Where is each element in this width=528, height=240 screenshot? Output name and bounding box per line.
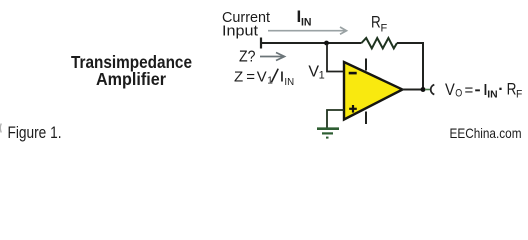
ground — [317, 129, 339, 138]
resistor RF — [362, 38, 398, 48]
wire: non-inverting input to ground — [327, 110, 344, 128]
svg-text:=: = — [465, 82, 474, 99]
output terminal — [431, 85, 435, 95]
svg-text:F: F — [381, 22, 388, 34]
op-amp U1 body — [344, 62, 403, 120]
svg-text:R: R — [507, 81, 517, 99]
op-amp positive supply pin — [365, 59, 367, 71]
junction: output node — [421, 87, 426, 92]
input terminal — [260, 38, 262, 49]
svg-text:O: O — [455, 88, 462, 100]
svg-text:1: 1 — [319, 69, 325, 81]
wire: op-amp output — [402, 89, 421, 91]
svg-text:V: V — [445, 81, 455, 99]
svg-text:I: I — [280, 69, 283, 86]
svg-text:IN: IN — [284, 76, 294, 88]
op-amp inverting pin marker — [349, 72, 357, 75]
wire: output node to terminal — [425, 89, 430, 91]
op-amp negative supply pin — [365, 112, 367, 125]
impedance arrow Z — [260, 53, 285, 61]
svg-text:R: R — [371, 14, 381, 32]
wire: input node — [261, 42, 362, 44]
svg-text:IN: IN — [487, 88, 497, 100]
svg-text:V: V — [257, 69, 267, 86]
edge artifact — [0, 124, 1, 133]
wire: node to inverting input — [327, 44, 344, 72]
svg-text:IN: IN — [301, 17, 312, 29]
svg-text:EEChina.com: EEChina.com — [450, 125, 522, 141]
svg-text:·: · — [498, 81, 503, 98]
svg-text:Z: Z — [234, 69, 243, 86]
op-amp non-inverting pin marker — [349, 105, 357, 113]
svg-text:Z?: Z? — [239, 49, 256, 66]
svg-text:=: = — [246, 69, 255, 86]
current arrow IIN — [268, 27, 347, 34]
svg-text:Input: Input — [222, 23, 259, 40]
wire: resistor to output node — [397, 43, 423, 88]
svg-text:F: F — [516, 88, 523, 100]
junction: inverting input node — [324, 41, 329, 46]
svg-text:Figure 1.: Figure 1. — [8, 123, 62, 142]
svg-text:Amplifier: Amplifier — [96, 69, 166, 89]
